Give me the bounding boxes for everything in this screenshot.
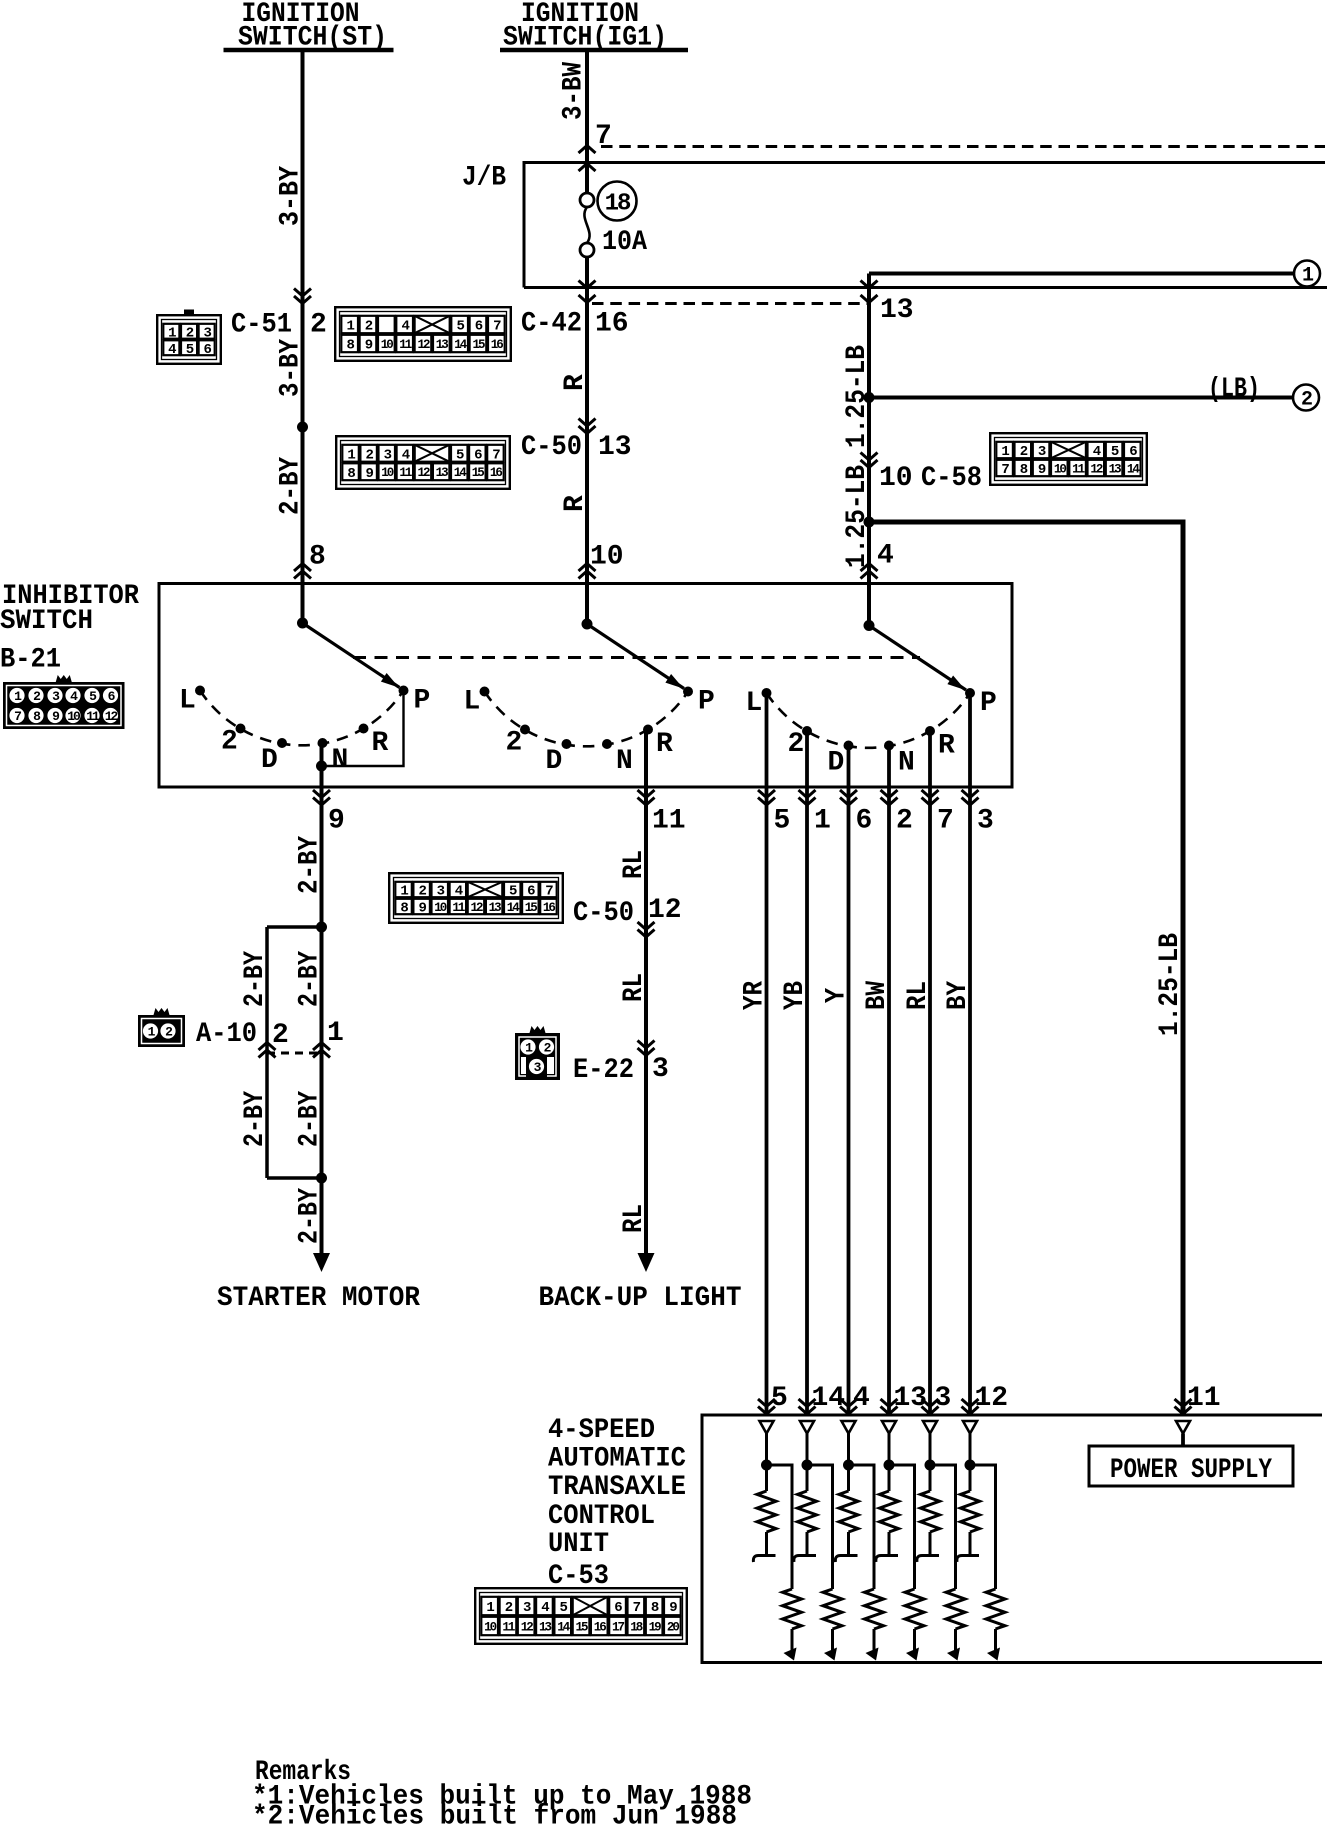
svg-text:P: P [698, 687, 715, 718]
inhibitor switch section 1: contact arc [200, 691, 404, 746]
connector C-50 [336, 436, 510, 489]
connector C-58 crossing arrows [861, 453, 878, 468]
exit arrows [758, 790, 775, 805]
svg-text:C-50: C-50 [521, 432, 582, 463]
inhibitor switch section 2: contact arc [485, 692, 689, 747]
svg-text:C-42: C-42 [521, 309, 582, 340]
switch 3 contact L [762, 688, 772, 698]
A-10 crossing arrows left [259, 1043, 276, 1058]
svg-text:17: 17 [612, 1621, 625, 1635]
svg-text:7: 7 [937, 806, 954, 837]
svg-text:BW: BW [862, 981, 893, 1010]
E-22 crossing arrows [638, 1041, 655, 1056]
svg-text:N: N [332, 745, 349, 776]
svg-text:11: 11 [399, 466, 412, 480]
svg-text:6: 6 [856, 806, 873, 837]
svg-text:R: R [560, 374, 591, 391]
svg-text:3-BY: 3-BY [275, 339, 306, 397]
arrow to back-up light [638, 1253, 655, 1272]
svg-text:L: L [746, 688, 763, 719]
connector C-42 [335, 307, 511, 361]
branch wire [267, 1176, 322, 1180]
switch 2 contact P [683, 687, 693, 697]
switch 1 contact R [359, 724, 369, 734]
fuse number 18 [598, 182, 637, 221]
arrow at J/B dashed line [579, 146, 596, 154]
exit arrows [962, 790, 979, 805]
svg-text:RL: RL [619, 1204, 650, 1233]
svg-text:1.25-LB: 1.25-LB [842, 465, 873, 568]
A-10 crossing arrows right [313, 1043, 330, 1058]
svg-text:13: 13 [539, 1621, 552, 1635]
svg-text:13: 13 [436, 466, 449, 480]
switch 1 contact 2 [236, 724, 246, 734]
svg-text:15: 15 [472, 338, 485, 352]
svg-text:A-10: A-10 [196, 1019, 257, 1050]
svg-text:16: 16 [543, 901, 556, 915]
inhibitor switch section 2: wiper [582, 619, 593, 630]
switch 1 P-to-N bracket wire [322, 691, 404, 767]
junction to power-supply wire [864, 517, 875, 528]
svg-text:2-BY: 2-BY [294, 1091, 325, 1147]
wire Y from switch contact D [847, 746, 851, 1416]
control unit entry arrows [881, 1399, 898, 1414]
svg-text:RL: RL [619, 850, 650, 879]
svg-text:D: D [828, 748, 845, 779]
svg-text:E-22: E-22 [573, 1055, 634, 1086]
wire BY from switch contact P [968, 693, 972, 1415]
switch 3 contact P [965, 688, 975, 698]
junction on ST wire [297, 422, 308, 433]
connector C-50 (second) [389, 873, 563, 923]
inhibitor switch section 1: wiper [297, 618, 308, 629]
svg-text:5: 5 [774, 806, 791, 837]
svg-text:N: N [898, 748, 915, 779]
svg-text:BY: BY [943, 981, 974, 1010]
switch 1 contact N [318, 738, 328, 748]
svg-text:18: 18 [605, 191, 631, 218]
svg-text:8: 8 [309, 542, 326, 573]
svg-text:10: 10 [590, 542, 624, 573]
svg-text:18: 18 [630, 1621, 643, 1635]
wire 2-BY to starter motor [320, 766, 324, 1253]
svg-text:RL: RL [619, 973, 650, 1002]
svg-text:C-51: C-51 [231, 310, 292, 341]
svg-text:10: 10 [1054, 463, 1067, 477]
svg-text:1: 1 [327, 1018, 344, 1049]
control unit entry arrows [799, 1399, 816, 1414]
svg-text:10: 10 [381, 338, 394, 352]
fuse 18 10A [580, 193, 594, 207]
C-50 crossing arrows [638, 922, 655, 937]
arrow leaving J/B on LB wire [861, 281, 878, 289]
svg-text:AUTOMATIC: AUTOMATIC [548, 1444, 686, 1475]
svg-text:4-SPEED: 4-SPEED [548, 1415, 655, 1446]
connector B-21 [3, 675, 125, 729]
connector C-58 [990, 433, 1147, 485]
connector C-53 [475, 1588, 687, 1644]
control unit pin 14 input circuit [800, 1421, 814, 1434]
inhibitor switch section 3: contact arc [767, 693, 971, 748]
svg-text:SWITCH: SWITCH [0, 606, 93, 637]
svg-text:11: 11 [1072, 463, 1085, 477]
svg-text:R: R [560, 495, 591, 512]
control unit entry arrows [758, 1399, 775, 1414]
svg-text:10: 10 [434, 901, 447, 915]
switch 2 contact D [562, 739, 572, 749]
svg-text:J/B: J/B [462, 163, 506, 194]
svg-text:12: 12 [1090, 463, 1103, 477]
svg-text:2: 2 [221, 727, 238, 758]
junction block J/B outline [524, 163, 1325, 288]
svg-text:R: R [372, 728, 389, 759]
svg-text:*2:Vehicles built from Jun 198: *2:Vehicles built from Jun 1988 [252, 1802, 737, 1827]
svg-text:12: 12 [975, 1383, 1009, 1414]
svg-text:15: 15 [525, 901, 538, 915]
wire 1.25-LB down from J/B [867, 274, 871, 626]
svg-text:C-50: C-50 [573, 898, 634, 929]
svg-text:10: 10 [879, 463, 913, 494]
connector C-50 crossing arrows [579, 419, 596, 434]
svg-text:16: 16 [595, 309, 629, 340]
svg-text:10: 10 [484, 1621, 497, 1635]
svg-text:L: L [464, 687, 481, 718]
svg-text:11: 11 [399, 338, 412, 352]
inhibitor switch pin 10 arrows [579, 564, 596, 579]
svg-text:13: 13 [489, 901, 502, 915]
svg-text:19: 19 [649, 1621, 662, 1635]
thick 1.25-LB wire to control unit pin 11 [869, 522, 1183, 1415]
svg-text:11: 11 [1187, 1383, 1221, 1414]
svg-text:13: 13 [436, 338, 449, 352]
switch 2 contact L [480, 687, 490, 697]
wire RL to back-up light [644, 730, 648, 1254]
switch 3 contact D [844, 741, 854, 751]
svg-text:2: 2 [272, 1020, 289, 1051]
svg-text:15: 15 [472, 466, 485, 480]
control unit pin 12 input circuit [963, 1421, 977, 1434]
svg-text:4: 4 [877, 541, 894, 572]
svg-text:16: 16 [594, 1621, 607, 1635]
arrow at C-42 [579, 295, 596, 303]
wire R from fuse down to inhibitor switch [585, 257, 589, 624]
switch 1 contact P [399, 686, 409, 696]
svg-text:3-BY: 3-BY [275, 166, 306, 226]
svg-text:YR: YR [739, 981, 770, 1010]
svg-text:C-58: C-58 [921, 463, 982, 494]
inhibitor switch pin 8 arrows [294, 564, 311, 579]
svg-text:2-BY: 2-BY [294, 1188, 325, 1244]
svg-text:RL: RL [903, 981, 934, 1010]
wire to power supply [1181, 1434, 1185, 1447]
switch 2 contact N [602, 739, 612, 749]
svg-text:15: 15 [575, 1621, 588, 1635]
svg-text:3: 3 [977, 806, 994, 837]
switch 3 contact N [884, 741, 894, 751]
svg-text:N: N [616, 746, 633, 777]
dashed line to pin 13 [592, 302, 869, 305]
connector C-51 crossing arrows [294, 289, 311, 304]
svg-text:20: 20 [667, 1621, 680, 1635]
junction to A-10 branch [316, 922, 327, 933]
wire to circled 1 [869, 272, 1294, 276]
svg-text:12: 12 [470, 901, 483, 915]
svg-text:10A: 10A [602, 227, 647, 258]
svg-text:CONTROL: CONTROL [548, 1501, 655, 1532]
4-speed automatic transaxle control unit box C-53 [702, 1415, 1322, 1663]
svg-text:13: 13 [598, 432, 632, 463]
svg-text:UNIT: UNIT [548, 1529, 609, 1560]
arrow to starter motor [313, 1253, 330, 1272]
control unit pin 13 input circuit [882, 1421, 896, 1434]
svg-text:(LB): (LB) [1208, 374, 1260, 405]
control unit pin 5 input circuit [760, 1421, 774, 1434]
exit arrows [922, 790, 939, 805]
exit arrows [840, 790, 857, 805]
svg-text:3-BW: 3-BW [559, 62, 590, 120]
svg-text:2-BY: 2-BY [294, 951, 325, 1007]
svg-text:D: D [261, 745, 278, 776]
svg-text:16: 16 [491, 338, 504, 352]
wire RL from switch contact R [928, 731, 932, 1415]
svg-text:P: P [414, 686, 431, 717]
svg-text:12: 12 [417, 466, 430, 480]
svg-text:10: 10 [381, 466, 394, 480]
svg-text:13: 13 [880, 295, 914, 326]
pin 9 exit arrows [313, 790, 330, 805]
exit arrows [881, 790, 898, 805]
switch 1 contact D [277, 738, 287, 748]
svg-text:2: 2 [310, 310, 327, 341]
svg-text:2-BY: 2-BY [240, 1091, 271, 1147]
connector A-10 [138, 1008, 185, 1047]
junction rejoining branch [316, 1173, 327, 1184]
junction to circled 2 [864, 392, 875, 403]
svg-text:16: 16 [490, 466, 503, 480]
svg-text:2-BY: 2-BY [275, 457, 306, 515]
arrow at pin 13 [861, 295, 878, 303]
svg-text:14: 14 [812, 1383, 846, 1414]
svg-text:2-BY: 2-BY [240, 951, 271, 1007]
svg-text:2: 2 [506, 728, 523, 759]
svg-text:D: D [546, 746, 563, 777]
svg-text:Y: Y [821, 988, 852, 1003]
wire YR from switch contact L [765, 693, 769, 1415]
arrow entering J/B [579, 164, 596, 172]
svg-text:P: P [980, 688, 997, 719]
J/B in-harness connector dashed line [601, 145, 1325, 148]
A-10 dashed connector link [267, 1052, 322, 1055]
svg-text:3: 3 [652, 1054, 669, 1085]
svg-text:YB: YB [780, 981, 811, 1010]
svg-text:POWER SUPPLY: POWER SUPPLY [1110, 1455, 1272, 1486]
control unit pin 4 input circuit [842, 1421, 856, 1434]
svg-text:13: 13 [1109, 463, 1122, 477]
pin 11 exit arrows [638, 790, 655, 805]
svg-text:2: 2 [896, 806, 913, 837]
inhibitor switch section 3: wiper [864, 620, 875, 631]
exit arrows [799, 790, 816, 805]
svg-text:BACK-UP LIGHT: BACK-UP LIGHT [539, 1283, 742, 1314]
svg-text:1: 1 [814, 806, 831, 837]
svg-text:12: 12 [521, 1621, 534, 1635]
svg-text:12: 12 [417, 338, 430, 352]
svg-text:11: 11 [502, 1621, 515, 1635]
left branch wire 2-BY [265, 927, 269, 1178]
svg-text:2: 2 [1301, 389, 1312, 412]
junction of P bracket and N output [316, 761, 327, 772]
node circled 2 [1293, 385, 1319, 411]
wire 3-BY from ignition switch ST [301, 50, 305, 623]
svg-text:9: 9 [328, 806, 345, 837]
switch 2 contact R [643, 725, 653, 735]
svg-text:1.25-LB: 1.25-LB [1155, 933, 1186, 1036]
wire (LB) to circled 2 [869, 396, 1293, 400]
wire YB from switch contact 2 [805, 731, 809, 1415]
switch 2 contact 2 [520, 725, 530, 735]
control unit pin 3 input circuit [923, 1421, 937, 1434]
power supply block [1176, 1421, 1190, 1434]
inhibitor switch pin 4 arrows [861, 564, 878, 579]
arrow leaving J/B [579, 281, 596, 289]
svg-text:R: R [938, 731, 955, 762]
control unit entry arrows [922, 1399, 939, 1414]
svg-text:STARTER MOTOR: STARTER MOTOR [217, 1283, 420, 1314]
svg-text:B-21: B-21 [0, 645, 61, 676]
svg-text:2: 2 [788, 729, 805, 760]
svg-text:TRANSAXLE: TRANSAXLE [548, 1472, 686, 1503]
branch wire [267, 925, 322, 929]
wire from N contact [320, 743, 324, 766]
switch 3 contact 2 [802, 726, 812, 736]
control unit entry arrows [840, 1399, 857, 1414]
svg-text:11: 11 [452, 901, 465, 915]
mechanical link dashed line [353, 656, 920, 659]
switch 3 contact R [925, 726, 935, 736]
control unit entry arrows [962, 1399, 979, 1414]
wire 3-BW from ignition switch IG1 [585, 50, 589, 193]
svg-text:2-BY: 2-BY [294, 836, 325, 894]
switch 1 contact L [195, 686, 205, 696]
node circled 1 [1294, 261, 1320, 287]
svg-text:L: L [179, 686, 196, 717]
wire BW from switch contact N [887, 746, 891, 1416]
svg-text:11: 11 [652, 806, 686, 837]
inhibitor switch box B-21 [159, 584, 1012, 788]
svg-text:R: R [656, 729, 673, 760]
connector C-51 [157, 310, 221, 364]
connector E-22 [515, 1026, 560, 1080]
control unit entry arrows pin 11 [1175, 1399, 1192, 1414]
